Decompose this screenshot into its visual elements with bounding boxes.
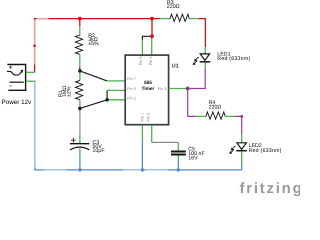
svg-text:10µF: 10µF xyxy=(92,148,105,154)
svg-text:Pin 2: Pin 2 xyxy=(127,96,136,100)
wire red branch to IC pins 8,4 xyxy=(151,19,153,37)
wire purple pin3 node to LED1 xyxy=(188,69,206,89)
wire green C3 top lead xyxy=(79,134,81,144)
resistor R3 xyxy=(160,14,198,21)
wire blue pin1 to ground rail xyxy=(141,141,143,170)
wire grey pin5 to C5 xyxy=(152,141,179,143)
LED1 xyxy=(193,47,211,68)
wire red stub to R2 top xyxy=(79,19,81,27)
capacitor C3 xyxy=(70,138,90,150)
svg-text:Pin 6: Pin 6 xyxy=(127,87,136,91)
wire blue ground rail xyxy=(35,81,242,170)
wire purple R4 to LED2 xyxy=(235,116,242,134)
wire blue LED2 to ground rail xyxy=(241,163,243,171)
wire green power plus stub xyxy=(26,71,35,73)
junction black node pin2/pin6 xyxy=(105,98,109,102)
junction blue node pin1/rail xyxy=(141,168,144,171)
IC U1 555 timer xyxy=(125,55,168,125)
svg-text:U1: U1 xyxy=(172,64,179,70)
wire blue light segment vertical xyxy=(34,82,36,168)
resistor R4 xyxy=(196,112,234,119)
wire green pin4 lead xyxy=(151,38,153,56)
svg-text:555: 555 xyxy=(144,80,152,85)
svg-text:±5%: ±5% xyxy=(88,41,99,47)
wire blue C5 to ground rail xyxy=(177,162,179,170)
junction black node R1/C3 xyxy=(78,107,82,111)
junction blue node C3/rail xyxy=(78,168,81,171)
wire red V+ rail top xyxy=(35,19,152,73)
wire black pin6 to pin2 link xyxy=(106,90,108,99)
svg-text:220Ω: 220Ω xyxy=(167,4,180,10)
wire green pin3 stub xyxy=(169,88,188,90)
wire red R3 right to LED1 xyxy=(198,19,205,48)
wire red dot to R3 left xyxy=(152,18,160,20)
svg-text:Power 12v: Power 12v xyxy=(2,99,33,106)
wire green C3 bottom lead xyxy=(79,148,81,157)
resistor R1 xyxy=(76,71,83,109)
junction red bendpoint left leg xyxy=(33,45,36,48)
svg-text:Red (633nm): Red (633nm) xyxy=(217,56,250,62)
wire blue C3 to ground rail xyxy=(79,158,81,170)
wire green C5 bottom lead xyxy=(177,156,179,162)
wire green pin1 lead xyxy=(141,125,143,141)
junction red node rail/branch xyxy=(150,17,154,21)
pin number labels (faint) xyxy=(82,15,238,140)
wire green pin7 stub xyxy=(107,80,125,82)
wire black diag R2/R1 node to pin7 xyxy=(80,71,107,81)
label R1 1MΩ ±2% (rotated) xyxy=(58,86,72,97)
svg-text:220Ω: 220Ω xyxy=(209,104,222,110)
svg-text:fritzing: fritzing xyxy=(240,180,301,196)
wire black jumper from node to pin8 column xyxy=(142,36,152,40)
junction purple bendpoint R4/LED2 xyxy=(240,115,243,118)
wire green C5 top lead xyxy=(177,142,179,150)
junction purple node pin3 xyxy=(186,87,190,91)
svg-text:Timer: Timer xyxy=(142,86,155,91)
svg-text:Pin 4: Pin 4 xyxy=(149,57,153,66)
svg-text:Pin 1: Pin 1 xyxy=(140,113,144,122)
wire green pin6 stub xyxy=(107,89,125,91)
svg-text:Pin 5: Pin 5 xyxy=(147,113,151,122)
wire green power minus stub xyxy=(26,80,35,82)
svg-text:Pin 8: Pin 8 xyxy=(139,57,143,66)
svg-text:±2%: ±2% xyxy=(66,86,72,97)
wire green pin5 lead xyxy=(151,125,153,142)
wire red light segment vertical xyxy=(34,20,36,65)
wire green pin8 lead xyxy=(141,40,143,56)
junction blue node C5/rail xyxy=(177,168,180,171)
connector J1 Power 12v xyxy=(7,64,26,91)
LED2 light arrows xyxy=(232,146,235,149)
junction red node pins 8-4 xyxy=(150,34,154,38)
resistor R2 xyxy=(75,26,82,71)
svg-text:16V: 16V xyxy=(188,156,198,162)
junction red node rail/R2 xyxy=(78,17,82,21)
wire blue light segment rail b xyxy=(123,169,141,171)
wire red light segment horizontal xyxy=(37,18,49,20)
wire blue light segment rail a xyxy=(44,169,66,171)
wire green pin2 stub xyxy=(107,99,125,101)
LED1 light arrows xyxy=(195,57,198,60)
capacitor C5 xyxy=(171,151,186,156)
svg-text:Pin 7: Pin 7 xyxy=(127,77,136,81)
LED2 xyxy=(229,134,247,162)
wire black diag pin2 node to R1 bottom xyxy=(80,100,107,109)
wire grey R1 bottom to C3 xyxy=(79,108,81,133)
junction black node R2/R1/pin7 xyxy=(78,69,82,73)
svg-text:Pin 3: Pin 3 xyxy=(158,87,167,91)
wire purple pin3 node down to R4 xyxy=(188,89,197,117)
wire blue light segment rail c xyxy=(146,169,168,171)
svg-text:Red (633nm): Red (633nm) xyxy=(249,148,282,154)
